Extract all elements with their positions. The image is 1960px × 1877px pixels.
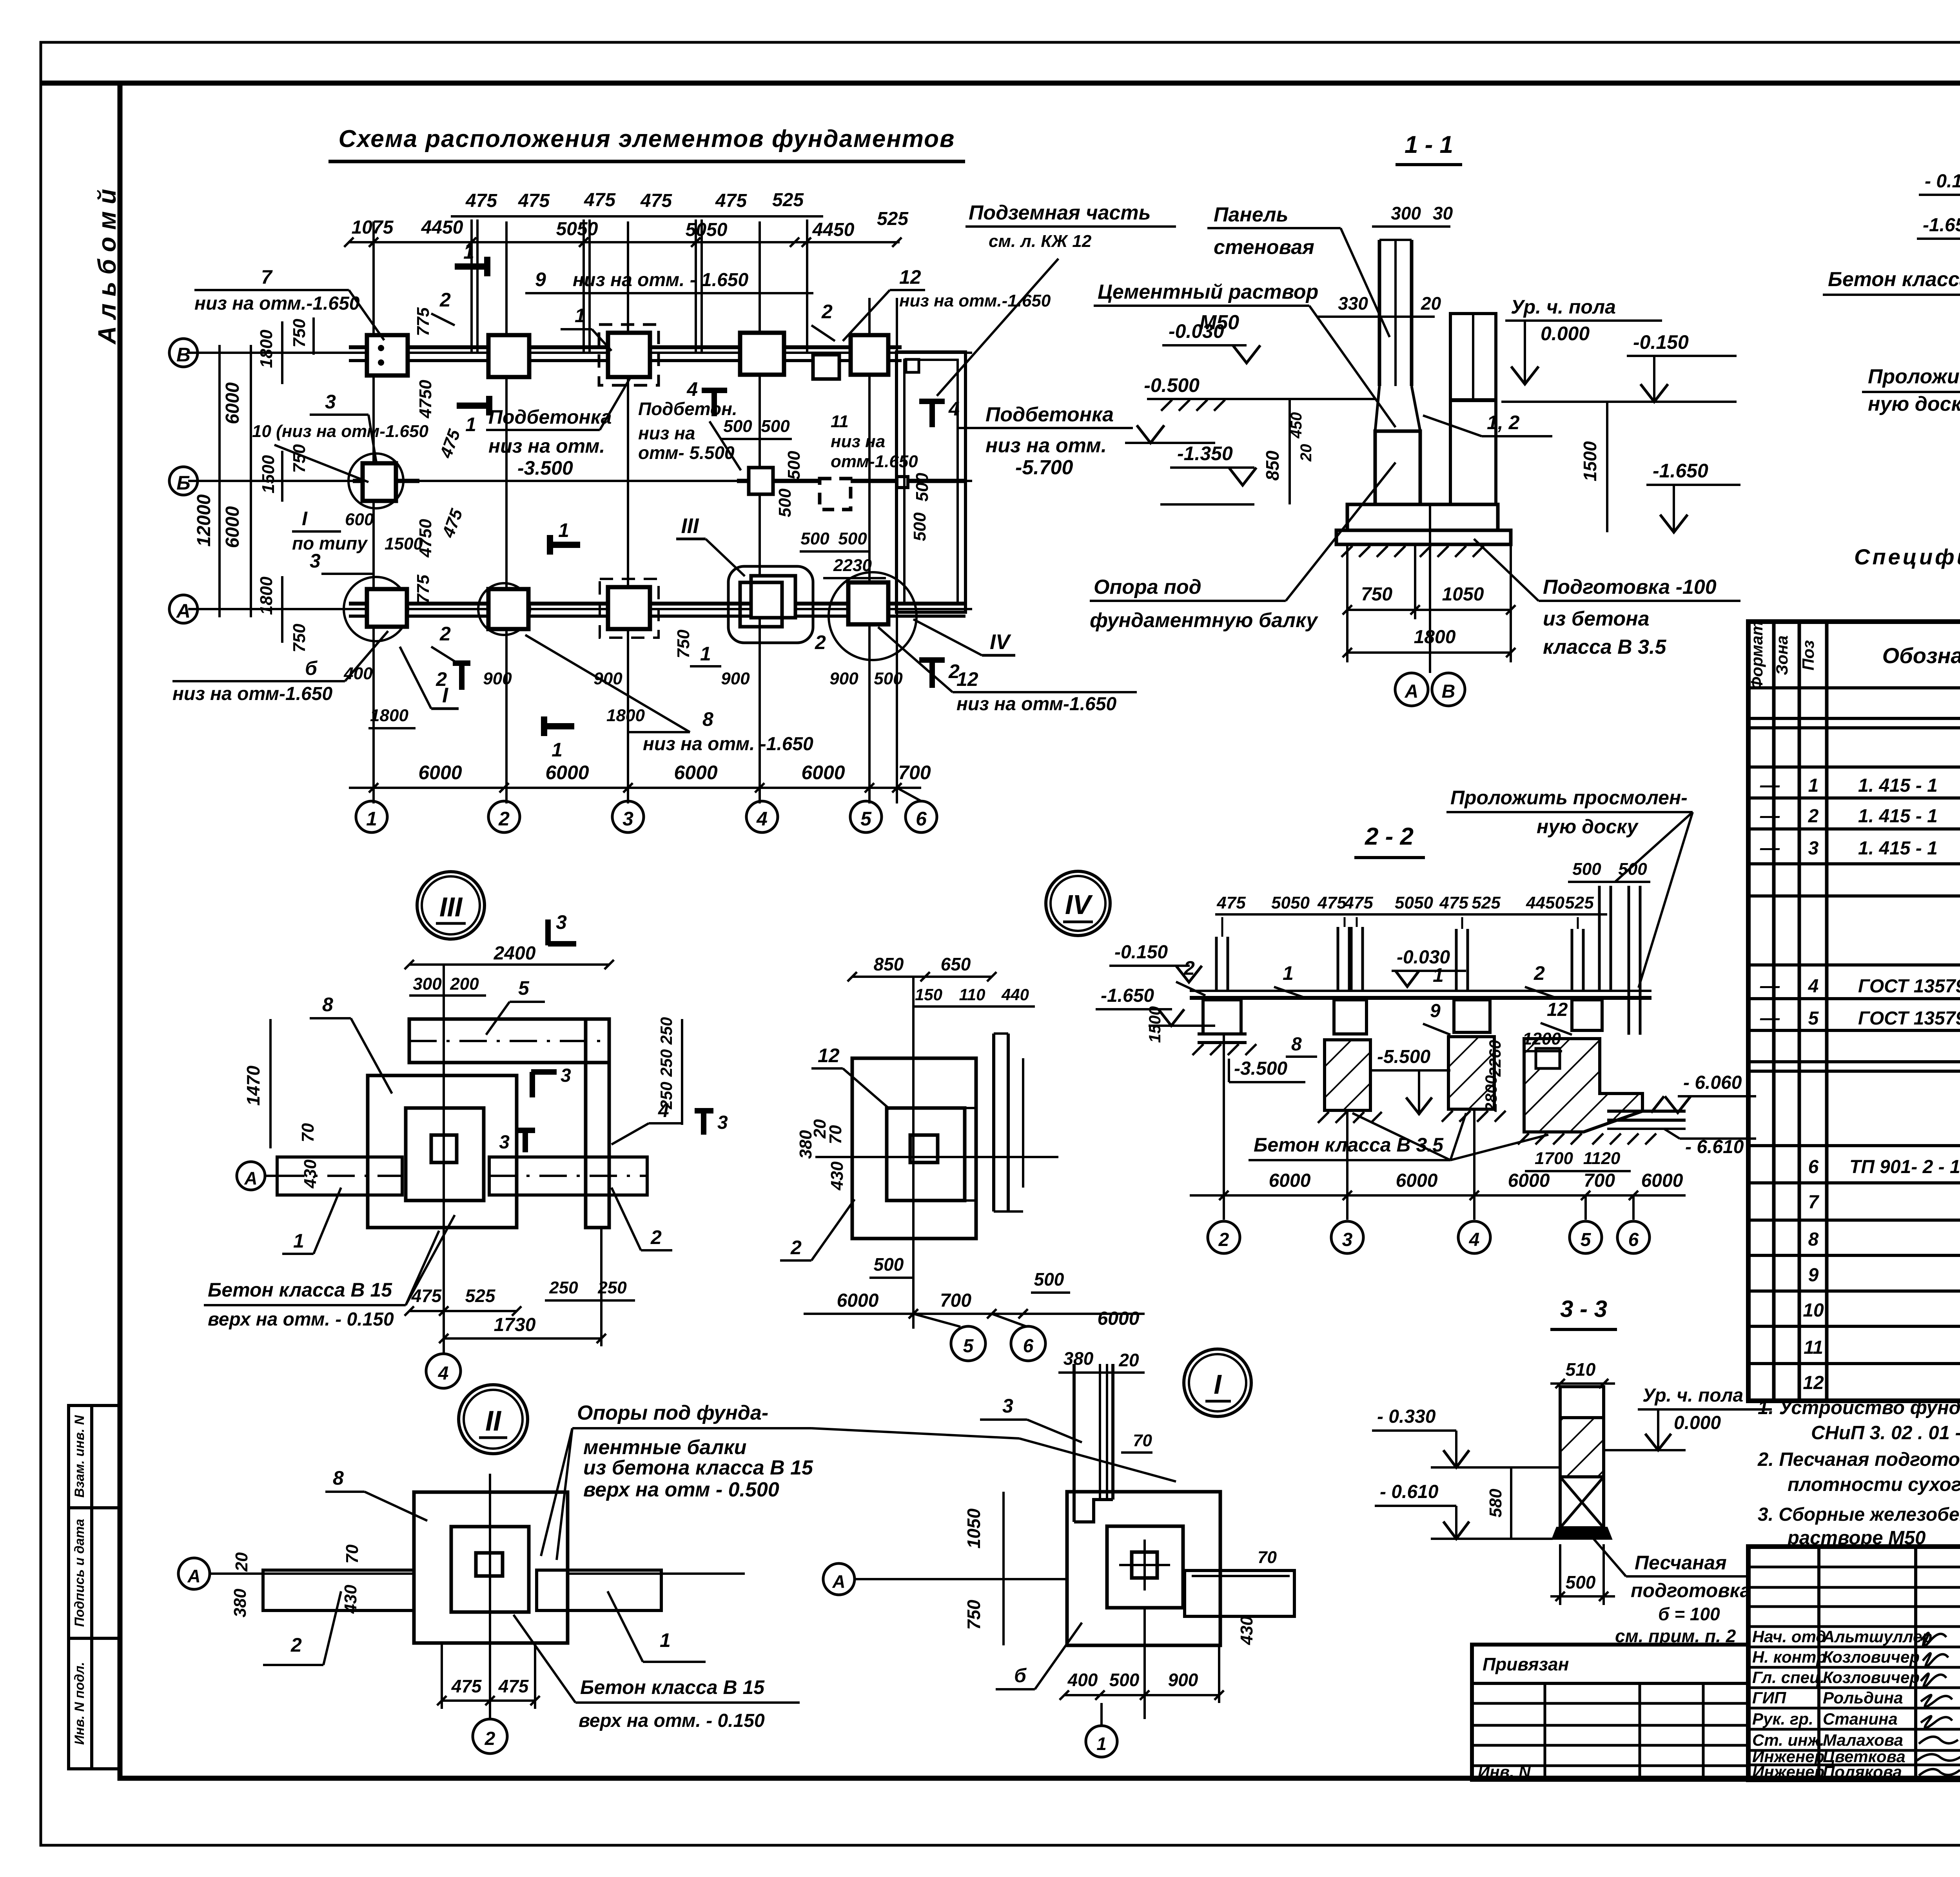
svg-text:А л ь б о м й: А л ь б о м й (93, 189, 121, 345)
svg-text:380: 380 (1063, 1348, 1094, 1369)
svg-text:525: 525 (1565, 893, 1594, 912)
svg-text:Козловичер: Козловичер (1823, 1668, 1920, 1687)
svg-text:7: 7 (1808, 1192, 1820, 1213)
svg-text:1: 1 (465, 413, 476, 435)
center axis vertical (912, 977, 915, 1329)
svg-text:1700: 1700 (1535, 1149, 1573, 1168)
svg-text:2: 2 (485, 1728, 495, 1749)
svg-text:500: 500 (723, 417, 752, 436)
section marks 3 (531, 1072, 557, 1097)
svg-text:6000: 6000 (418, 762, 462, 783)
grid axis 3 (627, 221, 629, 803)
svg-text:Подпись и дата: Подпись и дата (72, 1519, 87, 1627)
svg-text:б = 100: б = 100 (1658, 1604, 1720, 1624)
grid axis 5 (868, 298, 871, 803)
svg-text:3: 3 (1002, 1395, 1013, 1417)
svg-text:700: 700 (940, 1290, 971, 1311)
svg-text:430: 430 (828, 1161, 847, 1191)
svg-text:Гл. спец.: Гл. спец. (1752, 1668, 1825, 1687)
svg-text:8: 8 (322, 994, 333, 1016)
column hatched part (1560, 1418, 1604, 1477)
svg-text:2: 2 (1808, 806, 1819, 827)
svg-text:1730: 1730 (494, 1315, 536, 1335)
svg-text:ную доску: ную доску (1868, 393, 1960, 415)
square B6 small (897, 477, 908, 488)
svg-text:Рольдина: Рольдина (1823, 1688, 1903, 1707)
svg-text:12: 12 (956, 668, 978, 690)
vert dim 1500 (1606, 402, 1608, 532)
svg-text:низ на отм.: низ на отм. (488, 435, 605, 457)
svg-text:4: 4 (1469, 1230, 1480, 1250)
svg-text:250: 250 (657, 1017, 675, 1045)
svg-text:9: 9 (535, 268, 546, 290)
svg-text:1, 2: 1, 2 (1487, 412, 1520, 433)
svg-text:- 0.610: - 0.610 (1380, 1482, 1439, 1502)
svg-text:3. Сборные железобетонные э: 3. Сборные железобетонные элементы устан… (1758, 1504, 1960, 1525)
right vertical band (586, 1019, 609, 1228)
axis circle 2 (488, 801, 520, 832)
svg-text:ментные балки: ментные балки (583, 1436, 746, 1459)
right beam (537, 1570, 661, 1610)
axis circle 4 (746, 801, 778, 832)
svg-text:3 - 3: 3 - 3 (1560, 1296, 1607, 1322)
axis circle 1 (356, 801, 387, 832)
svg-text:Привязан: Привязан (1483, 1654, 1569, 1674)
column (1073, 1364, 1076, 1522)
svg-text:Бетон класса В3.5: Бетон класса В3.5 (1828, 268, 1960, 291)
svg-text:фундаментную балку: фундаментную балку (1090, 609, 1319, 632)
II title circle (459, 1385, 528, 1454)
right vertical band (992, 1034, 995, 1211)
table frame (1748, 622, 1960, 1401)
pier axis4 (1454, 1000, 1490, 1032)
svg-text:475: 475 (640, 190, 672, 211)
svg-text:400: 400 (343, 664, 373, 683)
svg-text:4450: 4450 (421, 217, 463, 238)
svg-text:-1.650: -1.650 (1101, 985, 1154, 1006)
axis circle 5 (850, 801, 882, 832)
foundation beam row V (349, 345, 902, 349)
big square (1067, 1492, 1220, 1645)
svg-text:11: 11 (831, 412, 849, 431)
svg-text:70: 70 (826, 1125, 845, 1144)
svg-text:Подземная часть: Подземная часть (969, 201, 1151, 224)
funnel top (1375, 386, 1420, 431)
svg-text:3: 3 (1808, 838, 1819, 859)
svg-text:Проложить просмолен-: Проложить просмолен- (1868, 365, 1960, 388)
svg-text:II: II (485, 1405, 502, 1437)
svg-text:Зона: Зона (1773, 635, 1791, 675)
svg-text:1. 415 - 1: 1. 415 - 1 (1858, 838, 1938, 859)
foundation square V4 (740, 333, 784, 375)
svg-text:380: 380 (796, 1130, 815, 1159)
svg-text:А: А (832, 1571, 845, 1592)
svg-text:- 6.060: - 6.060 (1683, 1072, 1742, 1093)
svg-text:6000: 6000 (1098, 1308, 1140, 1329)
svg-text:2: 2 (290, 1634, 302, 1656)
top dim chain main (348, 241, 900, 243)
columns above beam (1216, 886, 1640, 1035)
svg-text:Панель: Панель (1214, 203, 1289, 226)
svg-text:475: 475 (451, 1676, 482, 1696)
circled square A2 (478, 583, 530, 635)
svg-text:70: 70 (1258, 1548, 1277, 1567)
svg-text:20: 20 (232, 1552, 251, 1572)
svg-text:20: 20 (1118, 1350, 1139, 1370)
axis A (178, 1558, 210, 1589)
svg-text:5: 5 (518, 977, 530, 999)
left column dividers (1819, 1547, 1960, 1780)
svg-text:4: 4 (1808, 976, 1819, 997)
signatures squiggles (1917, 1633, 1960, 1775)
bottom dim chain (349, 787, 921, 789)
svg-text:-3.500: -3.500 (517, 457, 573, 479)
inner square (1107, 1526, 1183, 1608)
svg-text:Бетон класса В 15: Бетон класса В 15 (208, 1279, 392, 1301)
svg-text:12000: 12000 (194, 494, 214, 547)
svg-text:верх на отм. - 0.150: верх на отм. - 0.150 (579, 1710, 765, 1731)
vertical stubs from chain to squares (470, 219, 473, 353)
svg-text:1 - 1: 1 - 1 (1405, 131, 1453, 158)
svg-text:низ на отм. -1.650: низ на отм. -1.650 (643, 734, 813, 754)
svg-text:3: 3 (310, 550, 321, 572)
grid axis 2 (505, 221, 508, 803)
left dim chain outer (218, 345, 221, 617)
svg-text:СНиП 3. 02 . 01 - 83*: СНиП 3. 02 . 01 - 83* (1811, 1422, 1960, 1444)
svg-text:6000: 6000 (1508, 1170, 1550, 1191)
dims 750 1050 1800 (1347, 609, 1511, 611)
sand strip (965, 1108, 976, 1201)
svg-text:475: 475 (1317, 893, 1347, 912)
axis circles (1208, 1221, 1240, 1253)
svg-text:0.000: 0.000 (1541, 323, 1590, 345)
grid axis 1 (372, 221, 375, 803)
svg-text:2: 2 (1218, 1230, 1229, 1250)
svg-text:2: 2 (1183, 957, 1195, 979)
right beam (1185, 1571, 1294, 1616)
wall panel (1378, 240, 1381, 386)
svg-text:380: 380 (230, 1589, 250, 1618)
svg-text:0.000: 0.000 (1674, 1413, 1721, 1433)
dots in squares (378, 345, 384, 351)
svg-text:-5.700: -5.700 (1015, 456, 1073, 479)
svg-text:750: 750 (964, 1600, 984, 1630)
big square (368, 1075, 517, 1228)
svg-text:Взам. инв. N: Взам. инв. N (72, 1415, 87, 1498)
svg-text:6000: 6000 (801, 762, 845, 783)
svg-text:ГОСТ 13579 - 78: ГОСТ 13579 - 78 (1858, 976, 1960, 997)
svg-text:2: 2 (948, 660, 960, 682)
svg-text:верх на отм - 0.500: верх на отм - 0.500 (583, 1478, 779, 1501)
svg-text:3: 3 (499, 1132, 510, 1153)
small center square (910, 1135, 938, 1162)
svg-text:6000: 6000 (222, 506, 243, 548)
svg-text:5: 5 (860, 808, 872, 830)
svg-text:750: 750 (290, 319, 309, 348)
svg-text:1: 1 (558, 519, 569, 541)
axis line vertical (443, 965, 445, 1353)
center vertical axis (489, 1474, 491, 1709)
svg-text:4: 4 (948, 398, 960, 420)
base slab (1336, 530, 1511, 544)
top dim chain (1215, 913, 1607, 916)
svg-text:1: 1 (660, 1629, 671, 1651)
square B4a (749, 468, 773, 494)
svg-text:1500: 1500 (1145, 1006, 1164, 1043)
grid row B (188, 480, 972, 482)
svg-text:Рук. гр.: Рук. гр. (1752, 1710, 1813, 1728)
svg-text:1050: 1050 (964, 1508, 984, 1549)
svg-text:5050: 5050 (686, 219, 728, 240)
svg-text:750: 750 (674, 629, 693, 658)
svg-text:2400: 2400 (494, 943, 536, 964)
svg-text:70: 70 (1133, 1431, 1152, 1450)
svg-text:2 - 2: 2 - 2 (1365, 823, 1414, 850)
svg-text:400: 400 (1067, 1670, 1098, 1690)
svg-text:2: 2 (498, 808, 510, 830)
svg-text:12: 12 (1547, 999, 1568, 1020)
svg-text:Нач. отд: Нач. отд (1752, 1627, 1826, 1646)
inner square (887, 1108, 965, 1201)
svg-text:12: 12 (899, 266, 921, 288)
vert dim 580 (1510, 1467, 1512, 1539)
svg-text:700: 700 (898, 762, 931, 783)
svg-text:—: — (1760, 1007, 1780, 1029)
svg-text:ную доску: ную доску (1537, 816, 1639, 838)
svg-text:900: 900 (483, 669, 512, 688)
svg-text:-1.350: -1.350 (1177, 443, 1233, 464)
svg-text:см. л. КЖ 12: см. л. КЖ 12 (989, 232, 1092, 251)
ground line left (1147, 398, 1376, 400)
svg-text:12: 12 (818, 1045, 840, 1066)
svg-text:подготовка: подготовка (1631, 1580, 1751, 1601)
svg-text:2: 2 (790, 1237, 802, 1259)
svg-text:900: 900 (1168, 1670, 1198, 1690)
svg-text:8: 8 (1808, 1229, 1819, 1250)
foundation square V3 (608, 333, 650, 377)
svg-text:475: 475 (715, 190, 747, 211)
svg-text:Малахова: Малахова (1823, 1731, 1903, 1749)
svg-text:1120: 1120 (1583, 1149, 1621, 1168)
left beam (263, 1570, 414, 1610)
svg-text:5: 5 (1808, 1008, 1819, 1029)
svg-text:580: 580 (1486, 1489, 1505, 1518)
svg-text:4: 4 (658, 1099, 669, 1121)
bottom dim chain (1190, 1194, 1686, 1197)
svg-text:1800: 1800 (370, 706, 408, 725)
square B4b dashed (820, 479, 851, 510)
svg-text:А: А (176, 600, 191, 622)
inner square (451, 1527, 529, 1612)
vert dims 850 450 20 (1289, 399, 1291, 504)
svg-text:-5.500: -5.500 (1377, 1046, 1430, 1067)
foundation beam row A (349, 602, 965, 606)
svg-text:6: 6 (1628, 1230, 1639, 1250)
section mark 1-1 top (455, 257, 487, 276)
axis circle 1 (1086, 1726, 1117, 1757)
svg-text:700: 700 (1584, 1170, 1615, 1191)
svg-text:1: 1 (1433, 964, 1444, 986)
column cross part (1560, 1477, 1604, 1528)
pier axis3 (1334, 1000, 1367, 1034)
svg-text:6000: 6000 (837, 1290, 879, 1311)
svg-text:430: 430 (341, 1585, 360, 1614)
left stamp strip (69, 1405, 120, 1769)
svg-text:4450: 4450 (1526, 893, 1564, 912)
svg-text:20: 20 (1421, 293, 1441, 314)
detail III title circle (417, 872, 485, 939)
pedestal (1375, 431, 1420, 504)
left row lines (1748, 1567, 1960, 1765)
center small square (431, 1135, 457, 1162)
top band line (41, 81, 1960, 86)
thin stubs chain to beam (1222, 917, 1578, 937)
svg-text:6000: 6000 (545, 762, 589, 783)
svg-text:510: 510 (1566, 1359, 1596, 1380)
svg-text:III: III (681, 514, 699, 538)
svg-text:А: А (1405, 681, 1419, 702)
right vert dims 250 250 250 (681, 1019, 683, 1125)
svg-text:500: 500 (874, 669, 903, 688)
svg-text:500: 500 (1109, 1670, 1140, 1690)
svg-text:плотности сухого грунта. γ: плотности сухого грунта. γ = 1.65 кг/см³ (1788, 1474, 1960, 1495)
svg-text:3: 3 (717, 1112, 728, 1133)
svg-text:низ на отм-1.650: низ на отм-1.650 (172, 684, 332, 704)
step slabs right (1607, 1110, 1686, 1113)
svg-text:250: 250 (657, 1049, 675, 1077)
foundation beam row B seg1 (353, 479, 419, 483)
foundation beam row B seg2 (737, 479, 965, 483)
svg-text:низ на отм.: низ на отм. (985, 434, 1107, 457)
section mark 2 flag (453, 662, 470, 690)
axis circle 3 (612, 801, 644, 832)
svg-text:1800: 1800 (1414, 627, 1456, 647)
title underline (328, 160, 965, 163)
svg-text:1: 1 (1283, 962, 1294, 984)
svg-text:2230: 2230 (833, 556, 872, 575)
svg-text:1: 1 (552, 739, 563, 761)
svg-text:475: 475 (465, 190, 497, 211)
svg-text:6000: 6000 (674, 762, 717, 783)
foundation square V4b (813, 355, 839, 379)
svg-text:В: В (1442, 681, 1455, 702)
svg-text:850: 850 (874, 954, 904, 974)
ground hatch under slab (1341, 546, 1405, 557)
svg-text:-1.650: -1.650 (1653, 460, 1708, 482)
svg-text:1: 1 (1096, 1734, 1107, 1754)
svg-text:3: 3 (325, 391, 336, 413)
svg-text:Формат: Формат (1748, 621, 1766, 689)
svg-text:—: — (1760, 805, 1780, 827)
axis A (823, 1563, 855, 1595)
svg-text:б: б (1014, 1665, 1027, 1687)
svg-text:2: 2 (815, 631, 826, 653)
svg-text:3: 3 (1342, 1230, 1353, 1250)
svg-text:-0.150: -0.150 (1633, 331, 1689, 353)
svg-text:1800: 1800 (606, 706, 645, 725)
svg-text:500: 500 (874, 1254, 904, 1275)
detail III blob outline (728, 566, 813, 643)
beam line (1190, 996, 1651, 1000)
circled square B1 (348, 453, 403, 508)
foundation square V5 (851, 335, 888, 375)
svg-text:1. 415 - 1: 1. 415 - 1 (1858, 775, 1938, 796)
svg-text:-0.500: -0.500 (1144, 374, 1200, 396)
circled square A1 (344, 577, 408, 641)
svg-text:300: 300 (413, 974, 442, 994)
svg-text:I: I (442, 684, 448, 707)
svg-text:- 0.330: - 0.330 (1377, 1406, 1436, 1427)
foundation square V1 (367, 335, 408, 375)
svg-text:1800: 1800 (257, 577, 276, 615)
axis circle B (169, 467, 198, 495)
right lower wall (1450, 401, 1496, 504)
svg-text:Альтшуллер: Альтшуллер (1822, 1627, 1932, 1646)
svg-text:475: 475 (1216, 893, 1246, 912)
hatched mass axis5-6 (1524, 1039, 1642, 1132)
svg-text:Бетон класса В 3.5: Бетон класса В 3.5 (1254, 1134, 1444, 1156)
svg-text:Подготовка -100: Подготовка -100 (1543, 576, 1717, 598)
svg-text:Бетон класса В 15: Бетон класса В 15 (580, 1676, 765, 1698)
big square (414, 1492, 568, 1643)
svg-text:12: 12 (1803, 1373, 1824, 1393)
svg-text:из бетона: из бетона (1543, 608, 1650, 630)
svg-text:6000: 6000 (1396, 1170, 1438, 1191)
svg-text:1: 1 (575, 305, 586, 326)
svg-text:—: — (1760, 975, 1780, 997)
svg-text:70: 70 (343, 1544, 362, 1563)
svg-text:из бетона класса В 15: из бетона класса В 15 (583, 1456, 813, 1479)
svg-text:475: 475 (498, 1676, 529, 1696)
svg-text:Ст. инж.: Ст. инж. (1752, 1731, 1824, 1749)
svg-text:Инв. N подл.: Инв. N подл. (72, 1662, 87, 1745)
svg-text:3: 3 (561, 1065, 571, 1086)
svg-text:I: I (302, 508, 308, 530)
left beam (277, 1157, 402, 1195)
svg-text:А: А (187, 1566, 200, 1586)
svg-text:9: 9 (1808, 1265, 1819, 1286)
axis line horizontal (815, 1156, 1058, 1158)
basement small square (906, 359, 919, 372)
svg-text:5: 5 (963, 1336, 974, 1357)
svg-text:775: 775 (414, 307, 433, 336)
svg-text:900: 900 (829, 669, 858, 688)
svg-text:по типу: по типу (292, 533, 368, 553)
foundation square A3 (608, 587, 650, 629)
vert dim 1470 (269, 1019, 272, 1148)
svg-text:500: 500 (838, 529, 867, 548)
svg-text:10 (низ на отм-1.650: 10 (низ на отм-1.650 (252, 422, 428, 441)
small center square (1132, 1552, 1157, 1578)
svg-text:200: 200 (450, 974, 479, 994)
svg-text:475: 475 (584, 190, 616, 210)
squares A4 nested (751, 576, 795, 618)
svg-text:- 0.150: - 0.150 (1925, 171, 1960, 192)
svg-text:А: А (244, 1168, 257, 1188)
svg-text:ГИП: ГИП (1752, 1688, 1786, 1707)
svg-text:300: 300 (1391, 203, 1421, 223)
svg-text:750: 750 (290, 624, 309, 653)
big square (852, 1058, 976, 1239)
svg-text:475: 475 (411, 1286, 442, 1306)
svg-text:250: 250 (549, 1278, 578, 1297)
svg-text:2800: 2800 (1482, 1075, 1500, 1112)
axis circle 4 above (426, 1354, 461, 1388)
hatched block axis4 (1448, 1037, 1494, 1109)
svg-text:Обозначение: Обозначение (1882, 643, 1960, 668)
foundation square V2 (488, 335, 529, 377)
svg-text:1. Устройство фундаментов: 1. Устройство фундаментов вести в соотве… (1758, 1397, 1960, 1418)
